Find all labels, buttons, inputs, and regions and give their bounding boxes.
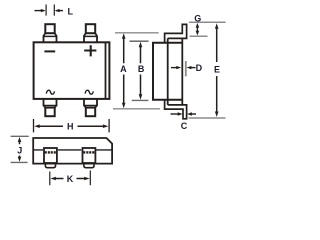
dimension K left arrow [55, 178, 64, 180]
svg-text:J: J [17, 146, 22, 156]
dimension K right arrow [77, 178, 86, 180]
pin 4 collar line [83, 105, 97, 107]
plus polarity mark [84, 45, 96, 56]
dimension B extension line top [130, 40, 149, 42]
minus polarity mark [44, 50, 55, 52]
svg-text:E: E [214, 64, 220, 74]
dimension G arrow [196, 26, 198, 33]
top view body [34, 42, 110, 99]
pin 1 collar line [43, 35, 57, 37]
side view inner edge line [167, 38, 169, 105]
side view body [153, 24, 187, 118]
pin 2 top-right tip [83, 24, 97, 42]
pin 2 shoulder [84, 33, 97, 42]
front view body outline [33, 138, 112, 164]
front view band line [33, 149, 112, 151]
svg-text:C: C [181, 121, 188, 131]
pin 4 bottom-right [83, 99, 97, 116]
dimension J extension line bottom [11, 161, 28, 163]
front lead 2 dots [83, 151, 94, 153]
side view lead plane line [181, 38, 183, 105]
dimension L ticks [46, 5, 54, 16]
dimension H ticks [34, 119, 110, 132]
front lead 2 [83, 148, 96, 163]
dimension J line [19, 141, 21, 158]
svg-text:D: D [196, 63, 203, 73]
pin 1 top-left tip [43, 24, 57, 42]
E bottom extension line [189, 117, 226, 119]
pin 2 collar line [83, 35, 97, 37]
front lead 1 foot [45, 163, 55, 168]
front lead 1 [44, 148, 57, 163]
pin 3 tip [45, 108, 54, 117]
pin 1 shoulder [44, 33, 57, 42]
dimension D left arrow [171, 67, 177, 69]
svg-text:L: L [68, 6, 74, 16]
dimension B line [140, 46, 142, 96]
top view bevel line [105, 43, 107, 98]
dimension E line [216, 28, 218, 113]
dimension H right arrow [78, 125, 105, 127]
dimension H left arrow [39, 125, 63, 127]
AC tilde mark left [46, 90, 54, 94]
svg-text:H: H [67, 122, 74, 132]
dimension K ticks [50, 171, 91, 186]
pin 3 bottom-left [43, 99, 57, 116]
dimension L left arrow [35, 10, 45, 12]
dimension J extension line top [11, 135, 29, 137]
dimension D right arrow [191, 67, 196, 69]
dimension G extension line bottom [190, 35, 208, 37]
pin 4 tip [86, 108, 95, 117]
svg-text:G: G [194, 13, 201, 23]
pin 3 collar line [43, 105, 57, 107]
front lead 2 foot [84, 163, 94, 168]
dimension B extension line bottom [132, 99, 149, 101]
dimension L right arrow [56, 10, 63, 12]
dimension A extension line top [115, 32, 159, 34]
D extension tick (gray) [185, 61, 187, 76]
dimension A line [123, 38, 125, 105]
side view bottom lead [165, 99, 187, 119]
front lead 1 dots [45, 151, 56, 153]
AC tilde mark right [85, 90, 93, 94]
dimension C right arrow [192, 113, 197, 115]
svg-text:K: K [67, 174, 74, 184]
dimension G extension line top [189, 21, 226, 23]
dimension C left arrow [171, 113, 179, 115]
svg-text:A: A [120, 64, 127, 74]
svg-text:B: B [138, 64, 145, 74]
side view top lead [165, 24, 187, 43]
dimension A extension line bottom [113, 108, 160, 110]
